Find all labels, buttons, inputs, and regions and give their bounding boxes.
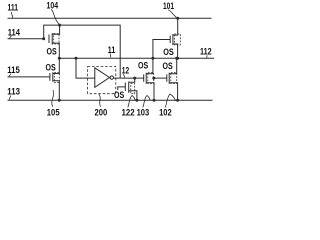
tick 113 [9,96,11,100]
junction dot 103 drain / node 11 [151,57,154,60]
junction dot inverter input tap [75,57,78,60]
svg-text:OS: OS [163,61,174,72]
gate bar [143,74,145,82]
back gate dashed [54,72,59,82]
back gate dashed [148,73,154,84]
svg-text:OS: OS [163,47,174,58]
junction dot 101 source on node 11 [176,57,179,60]
svg-text:111: 111 [8,3,19,13]
svg-text:12: 12 [122,66,129,76]
drain lead [52,25,59,34]
junction dot 122-113 [135,99,138,102]
wire 113 bottom rail [8,99,213,101]
gate bar [48,35,50,44]
junction dot 105-113 [58,99,61,102]
svg-text:102: 102 [159,107,172,118]
svg-text:OS: OS [114,90,125,101]
svg-text:103: 103 [137,107,150,118]
svg-text:OS: OS [46,62,57,73]
drain lead [146,58,153,74]
wire 114 [8,38,44,40]
svg-text:112: 112 [200,47,212,57]
junction dot storage node [58,57,61,60]
back gate dashed [54,34,59,45]
svg-text:200: 200 [95,107,108,118]
wire inverter input [76,58,95,78]
wire node 12 output [114,77,144,79]
gate wire [154,77,167,79]
channel bar [172,34,174,45]
transistor Q102 (OS) [154,58,178,100]
tick 115 [9,74,11,77]
leader 200 [99,94,101,107]
wire 111 top rail [8,17,212,19]
source lead [129,91,137,101]
svg-text:11: 11 [108,45,116,55]
junction dot gate 104 [42,37,45,40]
inverter U1 triangle [95,68,110,88]
junction dot 102 drain / node 11 [175,57,178,60]
transistor Q103 (OS) [144,58,154,100]
wire feedback: gate/drain of 104 to node 12 [44,25,121,78]
transistor Q105 (OS) [50,58,59,100]
tick 112 [206,55,209,58]
transistor Q104 (OS) [49,25,60,58]
leader 101 [168,10,176,18]
back gate dashed [174,34,180,45]
transistor Q122 (OS) [118,78,137,100]
leader 122 [128,96,135,108]
source lead [169,83,177,101]
wire 115 [8,76,50,78]
leader 105 [52,90,54,107]
back gate dashed [171,73,177,84]
leader 102 [165,94,175,107]
junction dot 101 drain on 111 [176,17,179,20]
source lead [173,44,178,58]
junction dot 102-113 [176,99,179,102]
svg-text:122: 122 [122,107,135,118]
gate stub [118,87,126,90]
svg-text:105: 105 [47,107,60,118]
gate bar [169,36,171,44]
svg-text:OS: OS [47,46,58,57]
svg-text:113: 113 [7,87,20,97]
gate bar [124,83,126,92]
tick 11 [109,53,112,57]
drain lead [169,58,177,74]
leader 104 [51,9,59,24]
gate bar [49,73,51,81]
dashed box circuit 200 [88,67,116,94]
drain lead [129,78,135,82]
channel bar [128,82,130,93]
channel bar [51,33,53,45]
svg-text:115: 115 [7,65,20,75]
back gate dashed [131,84,135,94]
junction dot back-gate tap [152,77,155,80]
junction dot 103-113 [153,99,156,102]
wire node 11 / 112 output line [59,57,214,59]
svg-text:104: 104 [47,1,59,11]
tick 111 [11,12,13,18]
source lead [146,83,154,101]
source lead [53,81,60,101]
tick 114 [9,36,11,39]
leader 103 [143,96,150,108]
svg-text:114: 114 [8,27,20,37]
source lead [52,43,59,58]
channel bar [168,73,170,84]
inverter bubble [110,76,113,79]
channel bar [145,73,147,84]
gate wire [153,40,170,59]
drain lead [53,58,60,73]
transistor Q101 (OS) [153,18,180,58]
gate bar [166,74,168,82]
channel bar [52,72,54,82]
drain lead [173,18,178,35]
tick 12 [124,74,125,78]
junction dot drain 104 [58,24,61,27]
junction dot node 12 [133,77,136,80]
svg-text:OS: OS [138,61,149,72]
